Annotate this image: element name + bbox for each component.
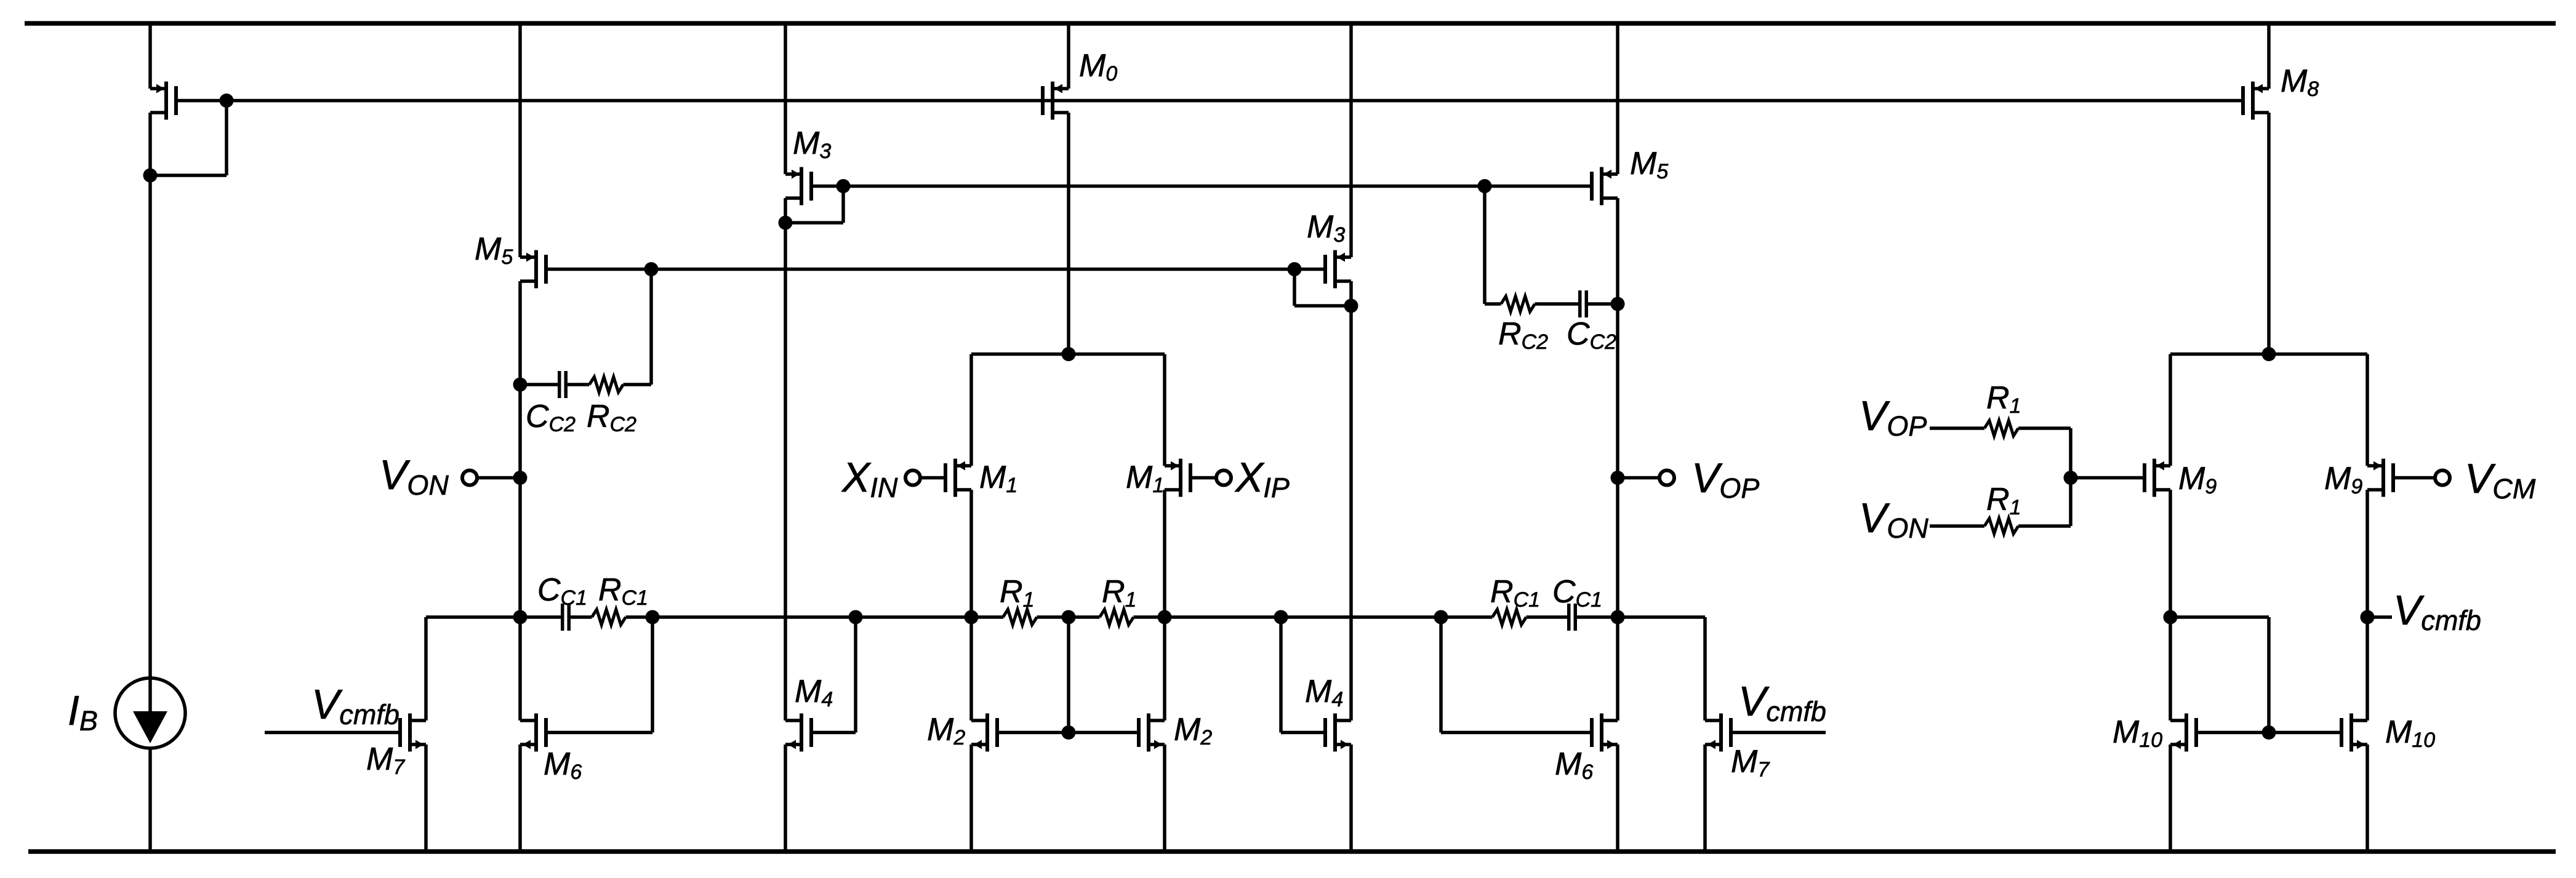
wire M6 left gate lead [546,731,652,735]
wire R1 lower to junction [2018,524,2071,528]
wire M3 left drain down to M4 left [784,198,787,720]
transistor M1 (left) [955,464,971,468]
wire M7 left source to VSS [424,744,428,850]
wire M7 right source to VSS [1703,744,1707,850]
wire VDD to M3 right source [1349,23,1353,257]
wire M1 left drain to node line [969,490,973,720]
wire M4 left gate lead [811,731,856,735]
node M10 gate midpoint [2262,725,2276,740]
wire M7 right gate lead [1731,731,1826,735]
terminal VON [462,471,477,485]
wire M10 gate link vertical [2267,617,2271,733]
resistor RC2 (right) [1501,297,1535,312]
transistor M10 (left) [2170,719,2186,722]
wire tail to M1 left source [969,354,973,466]
transistor M6 (left) [520,719,536,722]
wire RC2 to CC2 (right) [1535,302,1580,306]
wire VON lead [476,476,520,480]
wire M5 right drain to VOP column [1616,198,1619,304]
wire node line RC1 to R1 left [626,615,1004,619]
wire CMFB tail bar [2170,353,2367,356]
node VOP [1611,471,1625,485]
wire M3 right drain down to M4 right [1349,281,1353,720]
node M3 left drain junction [779,216,793,230]
wire left bias column to current source [148,113,152,679]
transistor M8 [2253,87,2269,90]
transistor M2 (right) [1149,719,1165,722]
node junction R1 midpoint [1062,610,1076,625]
capacitor CC1 (right) [1567,604,1571,631]
transistor M3 (left) [785,172,801,176]
wire M4 left source to VSS [784,744,787,850]
wire M5 right gate to compensation [1483,186,1487,305]
wire tail to M9 left source [2169,354,2172,466]
wire VDD to M0 source [1067,23,1070,89]
wire node line M7L to CC1 [426,615,561,619]
wire R1 upper to junction [2018,426,2071,430]
node junction VON column on node line [513,610,528,625]
node junction VOP column on node line [1611,610,1625,625]
transistor M1 (right) [1165,464,1181,468]
wire VOP lead [1618,476,1660,480]
wire tail to M9 right source [2365,354,2369,466]
node junction M4 left gate stub [849,610,863,625]
wire CC2 to RC2 (left) [566,383,589,386]
wire M10 right source to VSS [2365,744,2369,850]
wire M6 left source to VSS [518,744,522,850]
transistor M7 (left) [410,719,426,722]
wire M2 left source to VSS [969,744,973,850]
capacitor CC2 (right) [1578,290,1582,317]
wire M5 left gate to M3 right gate [546,268,1325,271]
wire M3 left diode connection [841,186,845,223]
node M9 left drain junction [2164,610,2178,625]
node bias gate junction [220,94,234,108]
node M3 right gate junction [1288,262,1302,276]
node VON [513,471,528,485]
wire M9 left drain down to M10 left [2169,490,2172,720]
capacitor CC2 (left) [558,371,561,398]
wire CC1 to RC1 (left) [571,615,592,619]
node M5 right compensation junction [1611,297,1625,311]
resistor RC1 (right) [1493,610,1527,625]
wire RC2 to M5 left gate branch [624,383,652,386]
node junction M6 right gate stub [1434,610,1448,625]
wire VDD to M5 right source [1616,23,1619,174]
wire node line between R1 resistors [1037,615,1100,619]
node sense junction [2064,471,2078,485]
wire VDD top rail [25,21,2556,26]
wire VOP sense lead [1930,426,1984,430]
resistor R1 (sense lower) [1984,519,2018,534]
wire compensation lead right [1485,302,1501,306]
wire M6 right source to VSS [1616,744,1619,850]
wire left bias column lower [148,748,152,850]
wire node line R1 to RC1 right [1134,615,1493,619]
wire M2 right source to VSS [1163,744,1166,850]
transistor M9 (right) [2367,464,2383,468]
wire M5 left drain to VON column [518,281,522,720]
wire VSS bottom rail [28,849,2556,854]
current source IB [115,678,185,748]
wire M3 left gate to M5 right gate [811,185,1592,188]
wire diff-pair tail bar [971,353,1165,356]
transistor M9 (left) [2154,464,2170,468]
wire M6 right gate lead [1441,731,1592,735]
wire CC2 to VOP column [1587,302,1618,306]
transistor M2 (left) [971,719,987,722]
wire M7 left gate lead [265,731,400,735]
node junction M4 right gate stub [1274,610,1288,625]
node bias drain junction [143,169,158,183]
resistor R1 (left) [1003,610,1037,625]
resistor RC1 (left) [592,610,626,625]
wire M5 left gate to compensation [649,269,653,385]
wire M4 left gate stub up [854,617,857,733]
wire diode connection of bias PMOS [225,101,228,176]
transistor M5 (right) [1602,172,1618,176]
node M3 left gate junction [837,179,851,193]
wire M1 right drain to node line [1163,490,1166,720]
resistor R1 (sense upper) [1984,421,2018,436]
terminal VCM [2435,471,2450,485]
node diff-pair tail junction [1062,347,1076,361]
wire M6 right gate stub up [1439,617,1443,733]
wire M1 left gate lead [921,476,945,480]
node CMFB tail junction [2262,347,2276,361]
node M5 left compensation junction [513,378,528,392]
wire sense junction vertical [2069,428,2072,526]
node Vcmfb output junction [2361,610,2375,625]
transistor M0 [1053,87,1069,90]
resistor RC2 (left) [590,377,624,393]
wire VOP column [1616,304,1619,720]
wire left bias column upper [148,23,152,89]
wire sense junction to M9 left gate [2071,476,2145,480]
wire M9 left drain to M10 gate link [2170,615,2269,619]
wire M7 right drain up to node line [1703,617,1707,720]
wire M7 left drain up to node line [424,617,428,720]
wire M6 left gate stub up [651,617,654,733]
wire tail to M1 right source [1163,354,1166,466]
wire M3 right diode connection [1293,269,1296,306]
transistor diode-connected PMOS (bias mirror) [150,87,166,90]
transistor M3 (right) [1335,255,1351,259]
wire M2 gates up to node line [1067,617,1070,733]
terminal XIN [905,471,920,485]
wire M2 gate line [997,731,1139,735]
wire M10 gate line [2196,731,2341,735]
wire M4 right gate stub up [1279,617,1283,733]
wire RC1 to CC1 (right) [1527,615,1569,619]
transistor M6 (right) [1602,719,1618,722]
capacitor CC1 (left) [561,604,564,631]
wire CC1 right to VOP column [1575,615,1705,619]
wire VON node to CC2 (left) [520,383,560,386]
node M2 gate midpoint [1062,725,1076,740]
wire M1 right gate lead [1190,476,1216,480]
wire VON sense lead [1930,524,1984,528]
wire Vcmfb output lead [2367,615,2392,619]
terminal VOP [1659,471,1674,485]
wire M10 left source to VSS [2169,744,2172,850]
terminal XIP [1216,471,1231,485]
wire M8 drain to CMFB tail [2267,113,2271,354]
wire M9 right drain down to M10 right [2365,490,2369,720]
node junction RC1-M6 gate (left) [646,610,660,625]
node M5 right gate junction [1478,179,1492,193]
wire M4 right gate lead [1281,731,1325,735]
node junction M1 left drain [965,610,979,625]
transistor M7 (right) [1705,719,1721,722]
node M5 left gate junction [644,262,659,276]
transistor M4 (left) [785,719,801,722]
wire VDD to M3 left source [784,23,787,174]
resistor R1 (right) [1100,610,1134,625]
wire M4 right source to VSS [1349,744,1353,850]
wire VDD to M8 source [2267,23,2271,89]
wire M0 drain to diff-pair tail [1067,113,1070,354]
node M3 right drain junction [1344,299,1358,313]
node junction M1 right drain [1158,610,1172,625]
wire bias gate line to M0 and M8 [177,99,2245,103]
wire M9 right gate lead [2393,476,2435,480]
wire VDD to M5 left source [518,23,522,257]
transistor M10 (right) [2351,719,2367,722]
transistor M4 (right) [1335,719,1351,722]
transistor M5 (left) [520,255,536,259]
